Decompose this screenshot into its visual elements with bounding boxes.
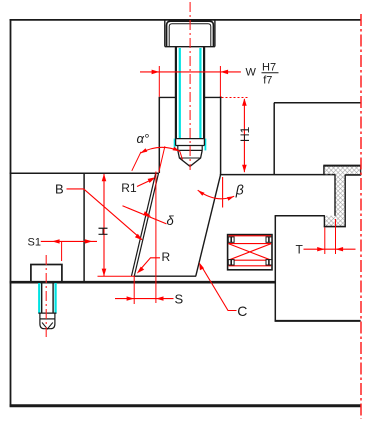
- wire counterbore-right: [214, 20, 216, 47]
- centerline screw M1: [189, 2, 191, 170]
- spring red coil lines: [228, 236, 271, 266]
- svg-text:H: H: [95, 227, 110, 236]
- svg-text:S1: S1: [28, 237, 41, 249]
- dimension H: [98, 174, 134, 276]
- label W H7/f7: [246, 62, 277, 87]
- wire upper-right-block-left-edge: [273, 103, 275, 175]
- svg-text:R1: R1: [121, 181, 137, 195]
- dimension S: [115, 172, 174, 305]
- lifter bottom: [134, 275, 197, 277]
- spring wire sections: [228, 237, 272, 265]
- dimension W: [140, 66, 241, 97]
- wire right-block-left-edge: [274, 216, 276, 322]
- bolt M2 hole cyan lines: [39, 283, 55, 314]
- dimension T: [304, 219, 356, 254]
- dimension H1: [222, 98, 250, 173]
- bolt M2 shank: [38, 282, 56, 329]
- screw M1 shank: [176, 47, 204, 139]
- spring body: [228, 235, 272, 270]
- svg-text:α°: α°: [137, 131, 150, 146]
- angle delta annotation: [123, 206, 167, 224]
- lifter left slant double line: [131, 173, 158, 277]
- dimension S1: [41, 241, 97, 261]
- svg-text:β: β: [235, 182, 244, 198]
- wire counterbore-left: [164, 20, 166, 47]
- wire plate-top-left: [10, 281, 276, 284]
- svg-text:δ: δ: [167, 213, 175, 228]
- wire right-block-top: [275, 215, 325, 217]
- svg-text:C: C: [237, 303, 247, 319]
- wire border-top: [10, 19, 361, 21]
- wire plate-top-right: [275, 320, 361, 322]
- angle alpha annotation: [132, 146, 183, 172]
- wire hole-step-right: [203, 96, 221, 98]
- wire parting-line-left: [10, 172, 158, 174]
- svg-text:W: W: [246, 67, 257, 79]
- svg-text:T: T: [296, 243, 304, 257]
- svg-text:H1: H1: [238, 126, 252, 142]
- svg-text:B: B: [55, 182, 64, 197]
- wire inner-wall: [83, 173, 85, 282]
- wire pocket-right-wall: [220, 96, 222, 174]
- T insert hatched body: [324, 166, 361, 227]
- svg-text:H7: H7: [262, 62, 276, 74]
- wire border-bottom: [10, 404, 361, 407]
- screw M1 tip: [175, 139, 205, 167]
- angle phi annotation: [198, 177, 235, 208]
- centerline main axis: [360, 14, 362, 419]
- svg-text:f7: f7: [263, 75, 272, 87]
- wire parting-line-right: [220, 174, 336, 176]
- bolt M2 head: [31, 265, 62, 283]
- screw M1 head: [165, 21, 215, 47]
- svg-text:S: S: [175, 292, 184, 307]
- wire border-left: [10, 19, 12, 407]
- svg-text:R: R: [162, 250, 171, 264]
- screw M1 thread cyan lines: [175, 48, 206, 150]
- wire pocket-left-wall: [158, 97, 160, 173]
- wire hole-step-left: [159, 96, 177, 98]
- wire upper-right-block-top: [274, 102, 361, 104]
- lifter right slant: [196, 175, 221, 276]
- T insert outline: [323, 166, 361, 227]
- centerline bolt M2: [45, 255, 47, 338]
